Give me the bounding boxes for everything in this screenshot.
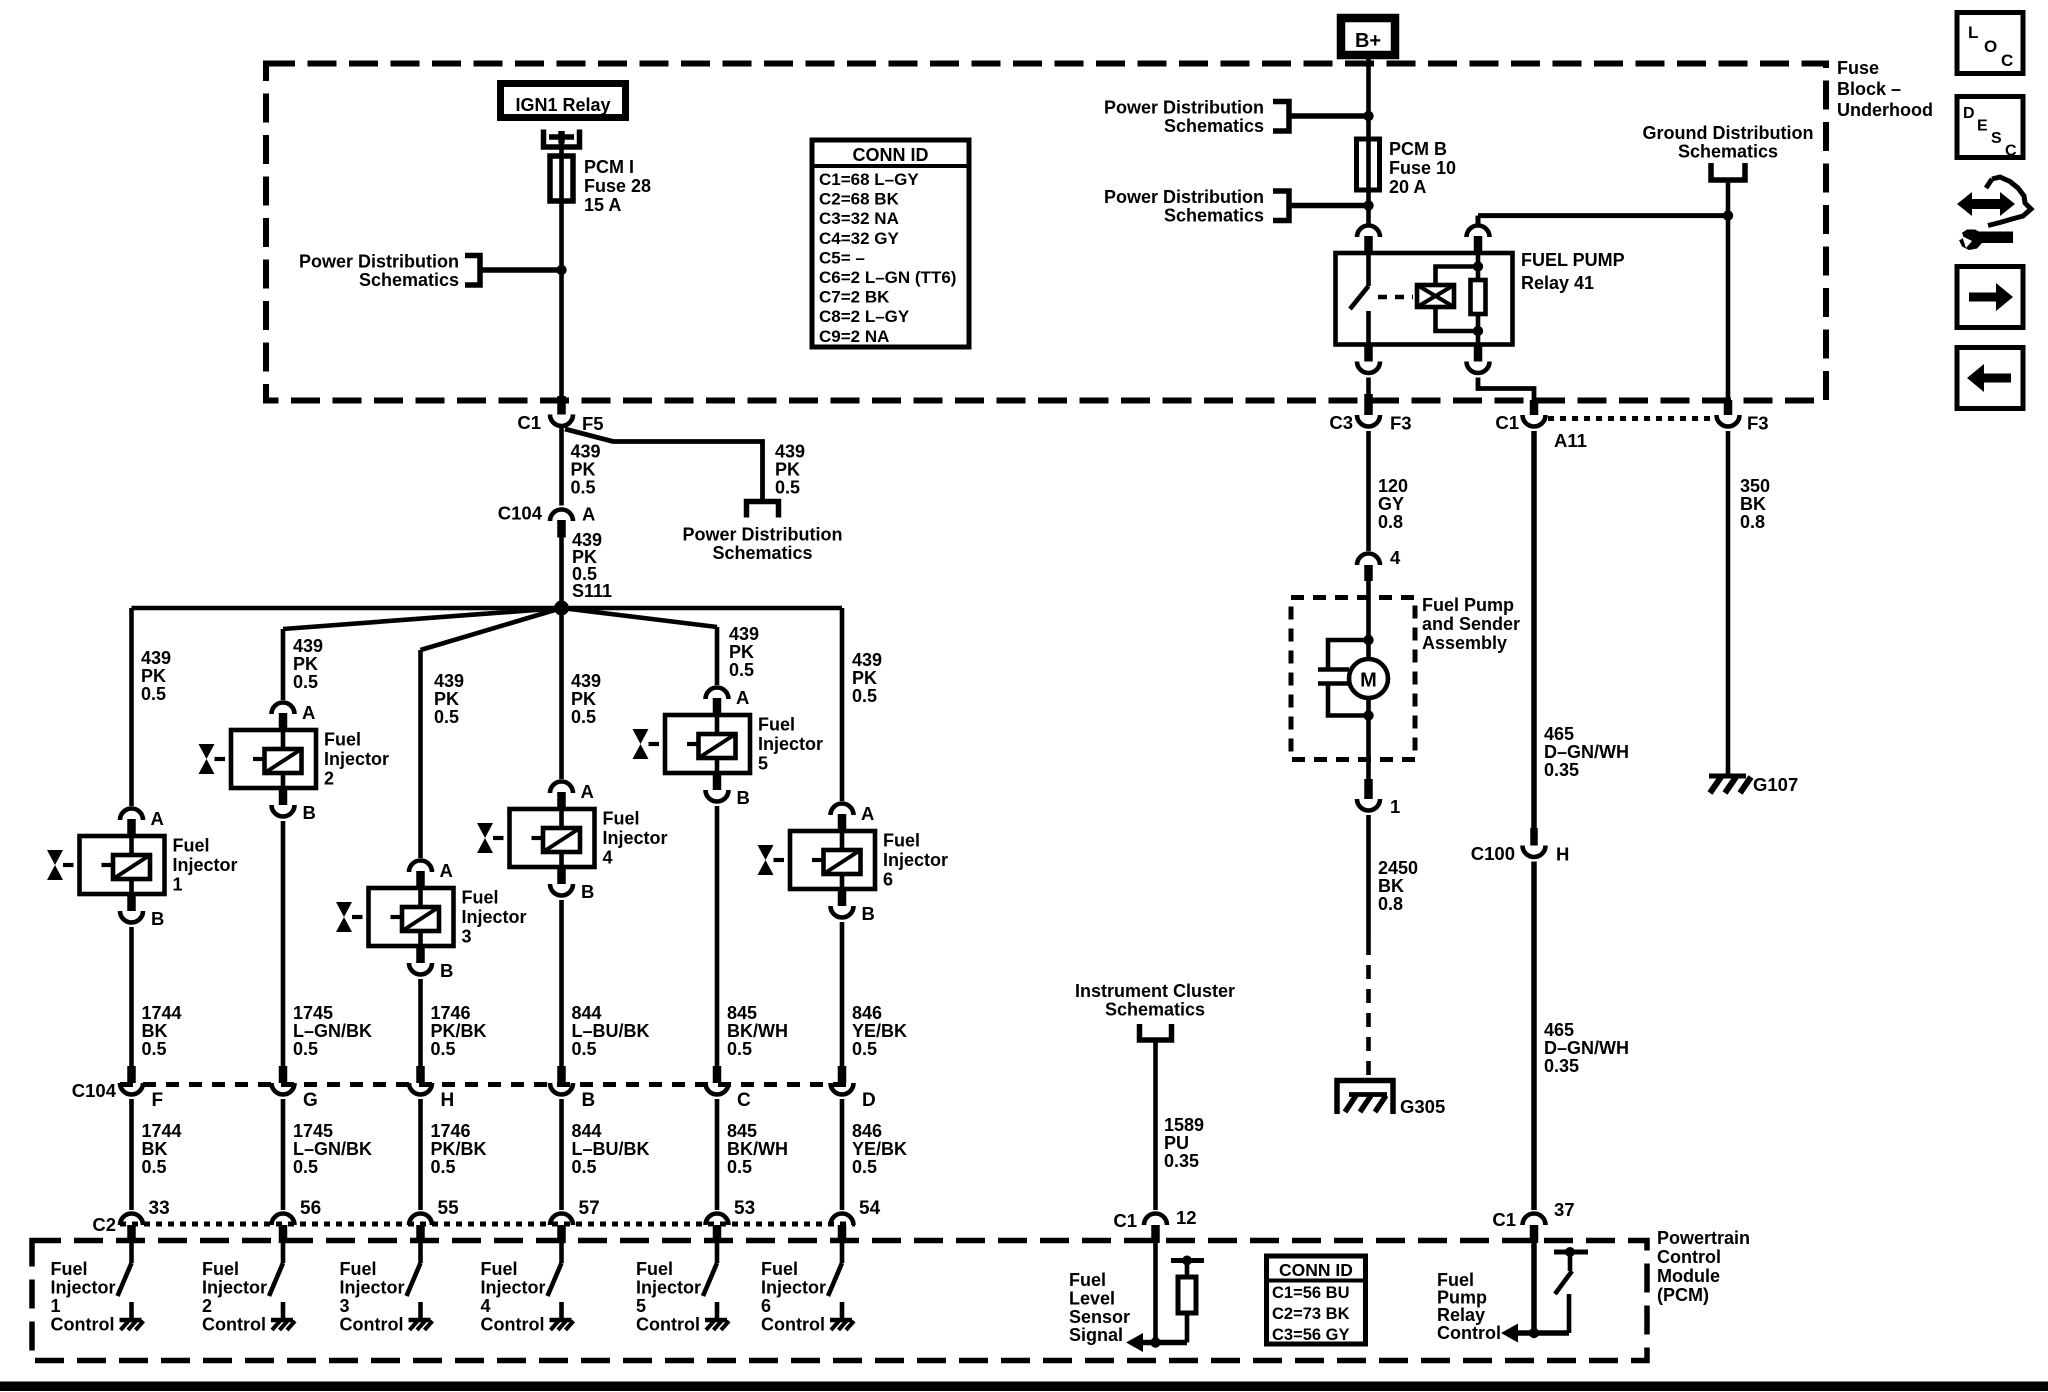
svg-text:1589: 1589 (1164, 1115, 1204, 1135)
fuel injector 2 valve symbol (199, 744, 215, 774)
svg-text:1745: 1745 (293, 1003, 333, 1023)
svg-text:BK: BK (1378, 876, 1404, 896)
svg-text:PCM B: PCM B (1389, 139, 1447, 159)
svg-text:0.5: 0.5 (431, 1039, 456, 1059)
svg-text:Fuel: Fuel (202, 1259, 239, 1279)
fuel injector 4 (510, 809, 595, 867)
svg-text:Fuel: Fuel (758, 715, 795, 735)
fuel injector 6 connector pin A (831, 804, 854, 816)
svg-text:D–GN/WH: D–GN/WH (1544, 742, 1629, 762)
wire 465 D-GN/WH upper (1531, 431, 1537, 828)
svg-text:B: B (582, 1090, 596, 1111)
svg-text:YE/BK: YE/BK (852, 1021, 907, 1041)
svg-text:0.5: 0.5 (852, 686, 877, 706)
svg-text:Injector: Injector (202, 1278, 267, 1298)
fuse block underhood dashed boundary (266, 64, 1826, 401)
svg-text:350: 350 (1740, 476, 1770, 496)
relay switch contact (1366, 253, 1371, 286)
svg-text:Schematics: Schematics (712, 543, 812, 563)
svg-text:0.8: 0.8 (1378, 894, 1403, 914)
svg-text:0.8: 0.8 (1740, 512, 1765, 532)
svg-text:0.35: 0.35 (1544, 760, 1579, 780)
svg-text:L–BU/BK: L–BU/BK (572, 1021, 650, 1041)
connector row C104 dashed line (120, 1082, 855, 1087)
relay FUEL PUMP Relay 41 (1336, 253, 1513, 345)
capacitor branch in pump (1328, 640, 1369, 669)
svg-text:33: 33 (149, 1198, 170, 1219)
fuel injector 3 connector pin A (409, 861, 432, 873)
svg-text:E: E (1977, 118, 1988, 135)
svg-text:Control: Control (1437, 1323, 1501, 1343)
PCM driver switch injector 6 (840, 1243, 845, 1263)
icon forward arrow box (1957, 267, 2023, 328)
svg-text:BK/WH: BK/WH (727, 1139, 788, 1159)
off-page ref bracket to Power Distribution Schematics (747, 502, 779, 518)
svg-text:Relay 41: Relay 41 (1521, 273, 1594, 293)
svg-text:57: 57 (579, 1198, 600, 1219)
resistor fuel level pull-up (1178, 1277, 1196, 1313)
svg-text:846: 846 (852, 1121, 882, 1141)
connector pin 4 fuel pump (1357, 554, 1380, 566)
svg-text:0.5: 0.5 (729, 660, 754, 680)
svg-text:0.5: 0.5 (727, 1157, 752, 1177)
bus wire from S111 across injector columns (132, 606, 843, 611)
svg-text:CONN ID: CONN ID (1279, 1260, 1353, 1280)
svg-text:1744: 1744 (142, 1003, 182, 1023)
svg-text:0.5: 0.5 (434, 707, 459, 727)
PCM driver switch injector 1 (129, 1243, 134, 1263)
connector C104 pin A (550, 510, 573, 522)
svg-text:1745: 1745 (293, 1121, 333, 1141)
svg-text:S111: S111 (572, 581, 612, 601)
svg-text:L: L (1968, 23, 1978, 42)
svg-text:0.5: 0.5 (571, 707, 596, 727)
splice S111 junction (554, 601, 569, 616)
relay pin bottom right (85) (1474, 345, 1483, 362)
svg-text:Fuel: Fuel (761, 1259, 798, 1279)
fuse PCM I Fuse 28 15A (550, 156, 573, 201)
connector F3 (ground wire) (1724, 400, 1733, 415)
svg-text:CONN ID: CONN ID (853, 145, 929, 165)
Powertrain Control Module dashed boundary (32, 1241, 1647, 1361)
svg-text:Schematics: Schematics (359, 270, 459, 290)
svg-text:1: 1 (173, 875, 183, 895)
svg-text:PK: PK (571, 689, 596, 709)
connector C104 pin G injector 2 circuit (279, 1066, 288, 1083)
svg-text:Fuse 10: Fuse 10 (1389, 158, 1456, 178)
svg-text:0.5: 0.5 (852, 1157, 877, 1177)
svg-text:B: B (737, 787, 750, 808)
wire S111 down to injector 4 (559, 608, 564, 779)
fuel injector 6 valve symbol (758, 845, 774, 875)
ground symbol injector 3 control (409, 1318, 431, 1323)
svg-text:4: 4 (603, 848, 613, 868)
svg-text:5: 5 (758, 754, 768, 774)
wire relay 87 to C3 (1366, 378, 1371, 395)
wire 439 PK from C1 to C104 (559, 426, 564, 506)
relay pin bottom left (87) (1364, 345, 1373, 362)
svg-text:Fuel: Fuel (173, 836, 210, 856)
wire 1744 from injector 1 to C104 (129, 927, 134, 1066)
svg-text:Injector: Injector (883, 850, 948, 870)
svg-text:Injector: Injector (636, 1278, 701, 1298)
off-page ref bracket instrument cluster (1140, 1024, 1172, 1040)
svg-text:Schematics: Schematics (1164, 206, 1264, 226)
svg-text:Injector: Injector (761, 1278, 826, 1298)
svg-text:S: S (1991, 130, 2002, 147)
connector C1 pin F5 (557, 396, 566, 415)
fuel injector 1 connector pin A (120, 809, 143, 820)
fuel injector 2 connector pin A (272, 703, 295, 715)
svg-text:C1: C1 (1113, 1210, 1137, 1231)
svg-text:Injector: Injector (603, 828, 668, 848)
connector C104 pin D injector 6 circuit (838, 1066, 847, 1083)
wire C1 12 into PCM (1153, 1243, 1158, 1343)
svg-text:15 A: 15 A (584, 195, 621, 215)
svg-text:0.5: 0.5 (775, 478, 800, 498)
svg-text:PK: PK (775, 460, 800, 480)
PCM fuel level sense resistor tap (1171, 1258, 1204, 1263)
svg-text:1: 1 (1390, 796, 1400, 817)
wire relay coil feed to ground distribution wire (1478, 213, 1728, 218)
svg-text:(PCM): (PCM) (1657, 1285, 1709, 1305)
bottom border rule (0, 1382, 2048, 1392)
connector C104 pin F injector 1 circuit (127, 1066, 136, 1083)
svg-text:PCM I: PCM I (584, 157, 634, 177)
svg-text:0.35: 0.35 (1164, 1151, 1199, 1171)
svg-text:C5= –: C5= – (819, 248, 865, 267)
svg-text:B: B (440, 960, 453, 981)
svg-text:L–GN/BK: L–GN/BK (293, 1021, 372, 1041)
svg-text:0.5: 0.5 (727, 1039, 752, 1059)
svg-text:Fuel: Fuel (603, 809, 640, 829)
svg-text:F5: F5 (582, 413, 604, 434)
svg-text:C1=56 BU: C1=56 BU (1272, 1284, 1350, 1302)
svg-text:Instrument Cluster: Instrument Cluster (1075, 981, 1235, 1001)
svg-text:C9=2 NA: C9=2 NA (819, 327, 889, 346)
svg-text:439: 439 (434, 671, 464, 691)
svg-text:6: 6 (761, 1296, 771, 1316)
svg-text:0.5: 0.5 (852, 1039, 877, 1059)
svg-text:M: M (1360, 670, 1377, 692)
svg-text:Control: Control (761, 1315, 825, 1335)
svg-text:Fuse 28: Fuse 28 (584, 176, 651, 196)
svg-text:Control: Control (202, 1315, 266, 1335)
wire from Fuse 28 down to C1 (559, 201, 564, 396)
fuel pump relay control arrow (1517, 1330, 1569, 1336)
svg-text:Power Distribution: Power Distribution (682, 525, 842, 545)
svg-text:Fuel: Fuel (636, 1259, 673, 1279)
svg-text:C1: C1 (1495, 412, 1519, 433)
svg-text:Control: Control (636, 1315, 700, 1335)
svg-text:FUEL PUMP: FUEL PUMP (1521, 250, 1625, 270)
svg-text:56: 56 (300, 1198, 321, 1219)
svg-text:Control: Control (51, 1315, 115, 1335)
svg-text:0.5: 0.5 (571, 478, 596, 498)
svg-text:Schematics: Schematics (1105, 1000, 1205, 1020)
svg-text:Powertrain: Powertrain (1657, 1228, 1750, 1248)
svg-text:C8=2 L–GY: C8=2 L–GY (819, 307, 910, 326)
svg-text:B: B (151, 908, 164, 929)
svg-text:Control: Control (340, 1315, 404, 1335)
ground G107 (1709, 774, 1746, 779)
ground symbol injector 5 control (705, 1318, 727, 1323)
fuel injector 4 connector pin B (557, 867, 566, 884)
svg-text:C2: C2 (92, 1214, 116, 1235)
svg-text:0.5: 0.5 (293, 672, 318, 692)
PCM driver switch injector 2 (281, 1243, 286, 1263)
svg-text:Power Distribution: Power Distribution (1104, 98, 1264, 118)
svg-text:PK: PK (434, 689, 459, 709)
connector C104 pin C injector 5 circuit (713, 1066, 722, 1083)
svg-text:B: B (581, 881, 594, 902)
svg-text:Ground Distribution: Ground Distribution (1643, 123, 1814, 143)
svg-text:439: 439 (571, 442, 601, 462)
svg-text:PK/BK: PK/BK (431, 1139, 487, 1159)
connector C1 pin 37 (1523, 1214, 1546, 1226)
fuel injector 5 connector pin B (713, 773, 722, 790)
wire 2450 BK solid part (1366, 815, 1371, 941)
svg-text:A: A (151, 808, 164, 829)
IGN1 relay output terminal symbol (544, 130, 580, 148)
icon DESC box (1957, 97, 2023, 158)
B+ battery terminal (1341, 18, 1395, 55)
ground G305 (1337, 1081, 1393, 1115)
svg-text:844: 844 (572, 1003, 602, 1023)
svg-text:C2=68 BK: C2=68 BK (819, 190, 900, 209)
CONN ID table PCM (1267, 1256, 1366, 1344)
wire S111 left end down to injector 1 (129, 608, 134, 806)
svg-text:2: 2 (324, 769, 334, 789)
svg-text:2450: 2450 (1378, 858, 1418, 878)
svg-text:C3: C3 (1329, 412, 1353, 433)
connector C2 pin 54 injector 6 control (831, 1214, 854, 1226)
svg-text:Injector: Injector (758, 734, 823, 754)
svg-text:GY: GY (1378, 494, 1404, 514)
svg-text:Schematics: Schematics (1678, 142, 1778, 162)
icon LOC box (1957, 13, 2023, 74)
svg-text:4: 4 (481, 1296, 491, 1316)
fuel injector 4 valve symbol (477, 823, 493, 853)
svg-text:1: 1 (51, 1296, 61, 1316)
relay pin top left (30) (1357, 226, 1380, 238)
wire 439 PK from C104 to splice S111 (559, 538, 564, 605)
wire 846 from injector 6 to C104 (840, 922, 845, 1066)
svg-text:0.35: 0.35 (1544, 1056, 1579, 1076)
wire ground distribution down to F3 (1726, 180, 1731, 400)
svg-text:C2=73 BK: C2=73 BK (1272, 1305, 1350, 1323)
relay coil (crossed box) (1417, 285, 1454, 307)
svg-text:C: C (2001, 51, 2013, 70)
wire 1744 from C104 to PCM C2 (129, 1099, 134, 1210)
svg-text:PK: PK (141, 666, 166, 686)
fuel injector 1 (80, 836, 165, 894)
wire 1745 from injector 2 to C104 (281, 821, 286, 1066)
fuse PCM B Fuse 10 20A (1357, 139, 1380, 190)
svg-text:C1: C1 (517, 412, 541, 433)
svg-text:Signal: Signal (1069, 1325, 1123, 1345)
fuel injector 2 (231, 730, 316, 788)
svg-text:D: D (862, 1090, 876, 1111)
svg-text:465: 465 (1544, 1020, 1574, 1040)
svg-text:C3=56 GY: C3=56 GY (1272, 1326, 1350, 1344)
ground symbol injector 1 control (120, 1318, 142, 1323)
connector C104 pin H injector 3 circuit (416, 1066, 425, 1083)
svg-text:0.5: 0.5 (572, 1157, 597, 1177)
IGN1 Relay box (501, 84, 626, 118)
svg-text:0.5: 0.5 (141, 684, 166, 704)
connector pin 1 fuel pump ground (1364, 779, 1373, 799)
PCM driver switch injector 5 (715, 1243, 720, 1263)
svg-text:Underhood: Underhood (1837, 100, 1933, 120)
fuel injector 5 connector pin A (706, 688, 729, 700)
wire 845 from C104 to PCM C2 (715, 1099, 720, 1210)
svg-text:465: 465 (1544, 724, 1574, 744)
CONN ID table fuse block (812, 140, 969, 347)
connector C2 pin 56 injector 2 control (272, 1214, 295, 1226)
svg-text:55: 55 (438, 1198, 460, 1219)
fuel injector 6 (790, 831, 875, 889)
svg-text:5: 5 (636, 1296, 646, 1316)
svg-text:BK: BK (142, 1139, 168, 1159)
svg-text:Block –: Block – (1837, 79, 1901, 99)
wire pump to connector 1 (1366, 716, 1371, 780)
svg-text:G305: G305 (1400, 1096, 1445, 1117)
wire diagonal S111 to injector 3 column (421, 608, 562, 650)
wire 350 BK to G107 (1726, 431, 1731, 774)
svg-text:C4=32 GY: C4=32 GY (819, 229, 900, 248)
svg-text:F3: F3 (1747, 413, 1769, 434)
svg-text:F3: F3 (1390, 413, 1412, 434)
wire from B+ down (1366, 55, 1371, 139)
fuel injector 1 valve symbol (47, 850, 63, 880)
off-page ref Power Distribution Schematics (lower right) (1273, 191, 1289, 221)
wire 1589 PU (1153, 1040, 1158, 1210)
svg-text:Fuel: Fuel (1069, 1270, 1106, 1290)
node junction with power distribution tap (556, 265, 566, 275)
relay actuation dashed link (1378, 295, 1413, 300)
svg-text:0.5: 0.5 (572, 1039, 597, 1059)
node tap power distribution upper (1363, 111, 1373, 121)
svg-text:C7=2 BK: C7=2 BK (819, 288, 890, 307)
svg-text:1744: 1744 (142, 1121, 182, 1141)
wire diagonal S111 to injector 5 column (562, 608, 718, 627)
icon back arrow box (1957, 348, 2023, 409)
svg-text:12: 12 (1176, 1207, 1197, 1228)
svg-text:53: 53 (734, 1198, 755, 1219)
fuel injector 3 (369, 888, 454, 946)
fuel injector 3 connector pin B (416, 946, 425, 963)
icon double arrow with wrench (1957, 192, 2015, 216)
connector C2 pin 33 injector 1 control (120, 1214, 143, 1226)
svg-text:0.5: 0.5 (431, 1157, 456, 1177)
svg-text:PK: PK (571, 460, 596, 480)
svg-text:54: 54 (859, 1198, 881, 1219)
svg-text:120: 120 (1378, 476, 1408, 496)
svg-text:439: 439 (293, 636, 323, 656)
svg-text:F: F (152, 1090, 164, 1111)
svg-text:C104: C104 (498, 503, 543, 524)
wire fuse to relay (1366, 190, 1371, 226)
svg-text:845: 845 (727, 1121, 757, 1141)
connector C1 pin 12 (1144, 1214, 1167, 1226)
svg-text:H: H (441, 1090, 455, 1111)
svg-text:Control: Control (1657, 1247, 1721, 1267)
fuel injector 5 valve symbol (633, 729, 649, 759)
svg-text:Sensor: Sensor (1069, 1307, 1130, 1327)
connector row dotted link A11-F3 (1548, 416, 1714, 421)
svg-text:C3=32 NA: C3=32 NA (819, 209, 899, 228)
svg-text:Assembly: Assembly (1422, 633, 1507, 653)
svg-text:Fuel: Fuel (462, 888, 499, 908)
relay coil parallel loop (1436, 267, 1479, 286)
svg-text:0.8: 0.8 (1378, 512, 1403, 532)
wire into pump (1366, 581, 1371, 659)
svg-text:Fuel Pump: Fuel Pump (1422, 595, 1514, 615)
wire C1 37 into PCM (1531, 1243, 1537, 1333)
fuel pump motor M (1349, 659, 1388, 698)
svg-text:C: C (2005, 143, 2017, 160)
svg-text:Injector: Injector (462, 907, 527, 927)
Fuel Pump and Sender Assembly dashed box (1291, 598, 1415, 760)
svg-text:IGN1 Relay: IGN1 Relay (515, 95, 610, 115)
svg-text:Fuel: Fuel (883, 831, 920, 851)
wire 2450 BK dashed part (1366, 941, 1371, 1078)
connector C100 pin H (1530, 828, 1538, 846)
fuel injector 3 valve symbol (336, 902, 352, 932)
svg-text:20 A: 20 A (1389, 177, 1426, 197)
svg-text:845: 845 (727, 1003, 757, 1023)
svg-text:PK: PK (729, 642, 754, 662)
off-page ref Power Distribution Schematics (upper right) (1273, 102, 1289, 132)
svg-text:G: G (303, 1090, 318, 1111)
wire relay 85 to C1 A11 (1478, 378, 1534, 401)
wire 1746 from C104 to PCM C2 (418, 1099, 423, 1210)
svg-text:Injector: Injector (51, 1278, 116, 1298)
wire 846 from C104 to PCM C2 (840, 1099, 845, 1210)
svg-text:A: A (736, 687, 749, 708)
svg-text:A: A (440, 860, 453, 881)
svg-text:0.5: 0.5 (142, 1039, 167, 1059)
svg-text:Fuse: Fuse (1837, 58, 1879, 78)
svg-text:A: A (302, 702, 315, 723)
svg-text:846: 846 (852, 1003, 882, 1023)
svg-text:C104: C104 (72, 1080, 117, 1101)
svg-text:Module: Module (1657, 1266, 1720, 1286)
connector C104 pin B injector 4 circuit (557, 1066, 566, 1083)
svg-text:and Sender: and Sender (1422, 614, 1520, 634)
svg-text:Power Distribution: Power Distribution (299, 252, 459, 272)
svg-text:C1=68 L–GY: C1=68 L–GY (819, 170, 919, 189)
svg-text:Injector: Injector (481, 1278, 546, 1298)
svg-text:PK: PK (852, 668, 877, 688)
svg-text:C6=2 L–GN (TT6): C6=2 L–GN (TT6) (819, 268, 956, 287)
svg-text:0.5: 0.5 (142, 1157, 167, 1177)
wire 1745 from C104 to PCM C2 (281, 1099, 286, 1210)
wire 465 D-GN/WH lower (1531, 862, 1537, 1211)
svg-text:3: 3 (340, 1296, 350, 1316)
svg-text:A: A (581, 781, 594, 802)
svg-text:3: 3 (462, 927, 472, 947)
fuel level sensor signal arrow (1142, 1340, 1187, 1346)
svg-text:Fuel: Fuel (481, 1259, 518, 1279)
svg-text:Fuel: Fuel (324, 730, 361, 750)
svg-text:1746: 1746 (431, 1121, 471, 1141)
wire 844 from C104 to PCM C2 (559, 1099, 564, 1210)
svg-text:Fuel: Fuel (340, 1259, 377, 1279)
svg-text:0.5: 0.5 (293, 1039, 318, 1059)
svg-text:PU: PU (1164, 1133, 1189, 1153)
